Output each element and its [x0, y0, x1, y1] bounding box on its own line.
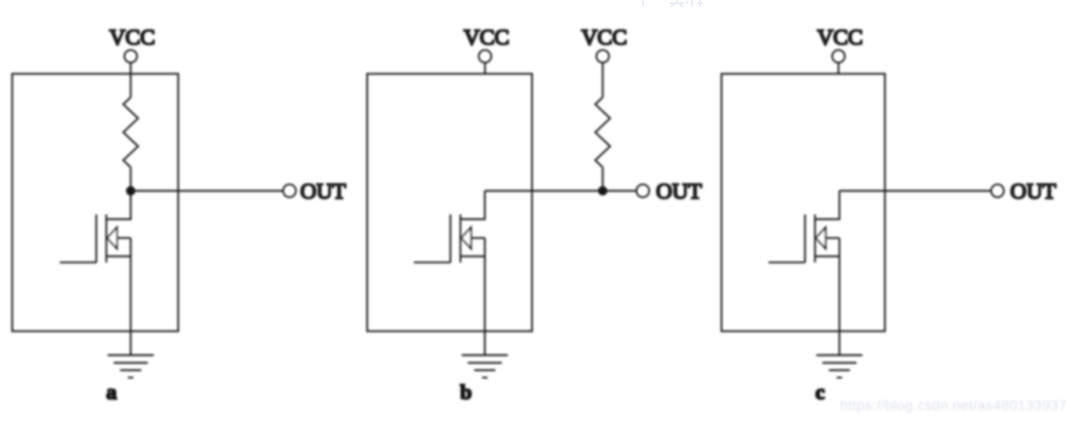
Q3 drain lead [815, 191, 839, 219]
Q2 channel bar [459, 215, 461, 263]
OUT terminal circle (b) [636, 184, 649, 197]
Q1 channel bar [105, 215, 107, 263]
Q2 gate lead wire [414, 261, 451, 263]
Q2 source lead [460, 255, 484, 257]
resistor R2 (pull-up) [595, 97, 610, 167]
cropped watermark remnant at top [643, 0, 703, 7]
Q3 body arrow [816, 228, 826, 249]
node A (drain / pull-up / OUT junction) [126, 186, 135, 195]
svg-text:OUT: OUT [300, 179, 346, 204]
ground (a) [108, 355, 154, 377]
VCC terminal circle (b-pullup) [596, 50, 609, 63]
wire node to OUT terminal (a) [131, 190, 283, 192]
wire resistor to node (a) [130, 167, 132, 191]
resistor R1 (pull-up) [123, 97, 138, 167]
Q3 channel bar [814, 215, 816, 263]
Q3 body wire [826, 237, 840, 239]
OUT terminal circle (c) [991, 184, 1004, 197]
IC outline box (b) [367, 74, 532, 331]
Q1 drain lead [106, 191, 130, 219]
svg-text:VCC: VCC [581, 24, 627, 49]
svg-text:https://blog.csdn.net/as480133: https://blog.csdn.net/as480133937 [840, 398, 1067, 414]
ground (c) [816, 355, 862, 377]
wire source to ground (c) [838, 238, 840, 355]
wire drain to node (b) [485, 190, 637, 192]
wire VCC terminal down (b-chip) [484, 63, 486, 74]
Q3 source lead [815, 255, 839, 257]
VCC terminal circle (c) [832, 50, 845, 63]
Q1 body wire [117, 237, 131, 239]
Q2 body wire [471, 237, 485, 239]
wire VCC terminal down (a) [130, 63, 132, 98]
transistor Q3 (N-channel MOSFET) [769, 191, 840, 263]
Q2 body arrow [461, 228, 471, 249]
IC outline box (c) [722, 74, 885, 331]
svg-text:VCC: VCC [817, 24, 863, 49]
wire source to ground (b) [484, 238, 486, 355]
Q2 gate bar [449, 215, 451, 263]
svg-text:b: b [460, 380, 472, 404]
transistor Q1 (N-channel MOSFET) [60, 191, 131, 263]
wire VCC terminal down (b-pullup) [602, 63, 604, 98]
VCC terminal circle (a) [124, 50, 137, 63]
OUT terminal circle (a) [283, 184, 296, 197]
svg-text:c: c [815, 380, 824, 404]
Q3 gate bar [804, 215, 806, 263]
VCC terminal circle (b-chip) [479, 50, 492, 63]
Q1 gate bar [95, 215, 97, 263]
svg-text:VCC: VCC [109, 24, 155, 49]
wire resistor to node (b) [602, 167, 604, 191]
ground (b) [462, 355, 508, 377]
wire VCC terminal down (c) [838, 63, 840, 74]
Q1 source lead [106, 255, 130, 257]
wire source to ground (a) [130, 238, 132, 355]
IC outline box (a) [12, 74, 178, 331]
transistor Q2 (N-channel MOSFET) [414, 191, 485, 263]
Q1 body arrow [107, 228, 117, 249]
svg-text:VCC: VCC [464, 24, 510, 49]
node B (drain / pull-up / OUT junction) [598, 186, 607, 195]
svg-text:OUT: OUT [656, 179, 702, 204]
Q3 gate lead wire [769, 261, 806, 263]
Q2 drain lead [460, 191, 484, 219]
svg-text:OUT: OUT [1010, 179, 1056, 204]
Q1 gate lead wire [60, 261, 97, 263]
wire drain to OUT terminal (c) [839, 190, 991, 192]
svg-text:a: a [106, 380, 117, 404]
